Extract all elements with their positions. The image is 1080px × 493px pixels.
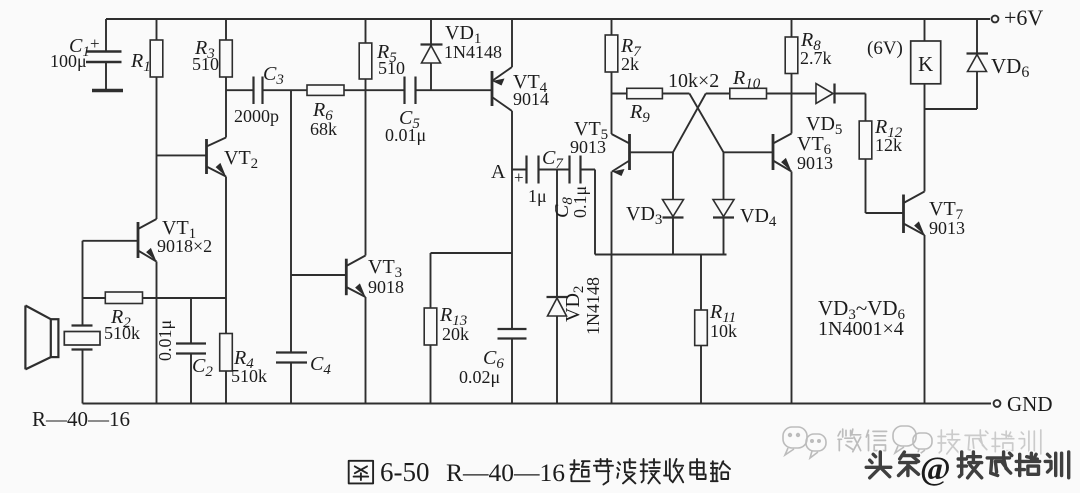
svg-text:0.01μ: 0.01μ — [385, 125, 426, 145]
svg-text:2000p: 2000p — [234, 106, 279, 126]
svg-text:68k: 68k — [310, 119, 337, 139]
svg-text:VD5: VD5 — [806, 113, 842, 138]
svg-text:1N4148: 1N4148 — [444, 42, 502, 62]
svg-text:K: K — [918, 52, 933, 76]
svg-text:510k: 510k — [231, 366, 267, 386]
svg-text:9018: 9018 — [368, 277, 404, 297]
svg-text:+: + — [514, 168, 524, 187]
svg-text:+6V: +6V — [1004, 5, 1043, 30]
svg-text:1μ: 1μ — [528, 186, 547, 206]
svg-text:9013: 9013 — [797, 153, 833, 173]
svg-text:1N4148: 1N4148 — [583, 277, 603, 335]
svg-text:12k: 12k — [875, 135, 902, 155]
svg-text:R—40—16: R—40—16 — [446, 458, 565, 487]
svg-text:2k: 2k — [621, 54, 639, 74]
svg-text:9018×2: 9018×2 — [157, 236, 212, 256]
svg-text:@: @ — [920, 451, 951, 487]
svg-text:6-50: 6-50 — [380, 457, 430, 487]
svg-text:C7: C7 — [542, 147, 564, 172]
svg-text:20k: 20k — [442, 324, 469, 344]
svg-text:VD4: VD4 — [740, 205, 777, 230]
svg-text:(6V): (6V) — [867, 38, 903, 59]
svg-text:GND: GND — [1007, 392, 1053, 416]
svg-text:9014: 9014 — [513, 89, 549, 109]
svg-text:100μ: 100μ — [50, 51, 87, 71]
svg-text:0.01μ: 0.01μ — [155, 320, 175, 361]
svg-text:510k: 510k — [104, 323, 140, 343]
svg-text:R1: R1 — [130, 50, 151, 75]
svg-text:0.02μ: 0.02μ — [459, 367, 500, 387]
svg-text:C3: C3 — [263, 63, 284, 88]
svg-text:510: 510 — [192, 54, 219, 74]
svg-text:510: 510 — [378, 58, 405, 78]
svg-text:C4: C4 — [310, 353, 331, 378]
svg-text:C2: C2 — [192, 355, 213, 380]
svg-text:9013: 9013 — [570, 137, 606, 157]
svg-text:9013: 9013 — [929, 218, 965, 238]
svg-text:1N4001×4: 1N4001×4 — [818, 318, 904, 340]
svg-text:VD6: VD6 — [991, 54, 1029, 81]
svg-text:+: + — [90, 34, 100, 53]
svg-text:R—40—16: R—40—16 — [32, 407, 130, 431]
svg-text:0.1μ: 0.1μ — [570, 186, 590, 218]
svg-text:VT2: VT2 — [224, 147, 258, 172]
svg-text:R9: R9 — [629, 101, 650, 126]
svg-text:10k×2: 10k×2 — [668, 70, 719, 92]
svg-text:A: A — [491, 161, 506, 183]
svg-text:R10: R10 — [732, 67, 761, 92]
svg-text:VD3: VD3 — [626, 203, 662, 228]
svg-text:10k: 10k — [710, 321, 737, 341]
svg-text:2.7k: 2.7k — [800, 48, 832, 68]
